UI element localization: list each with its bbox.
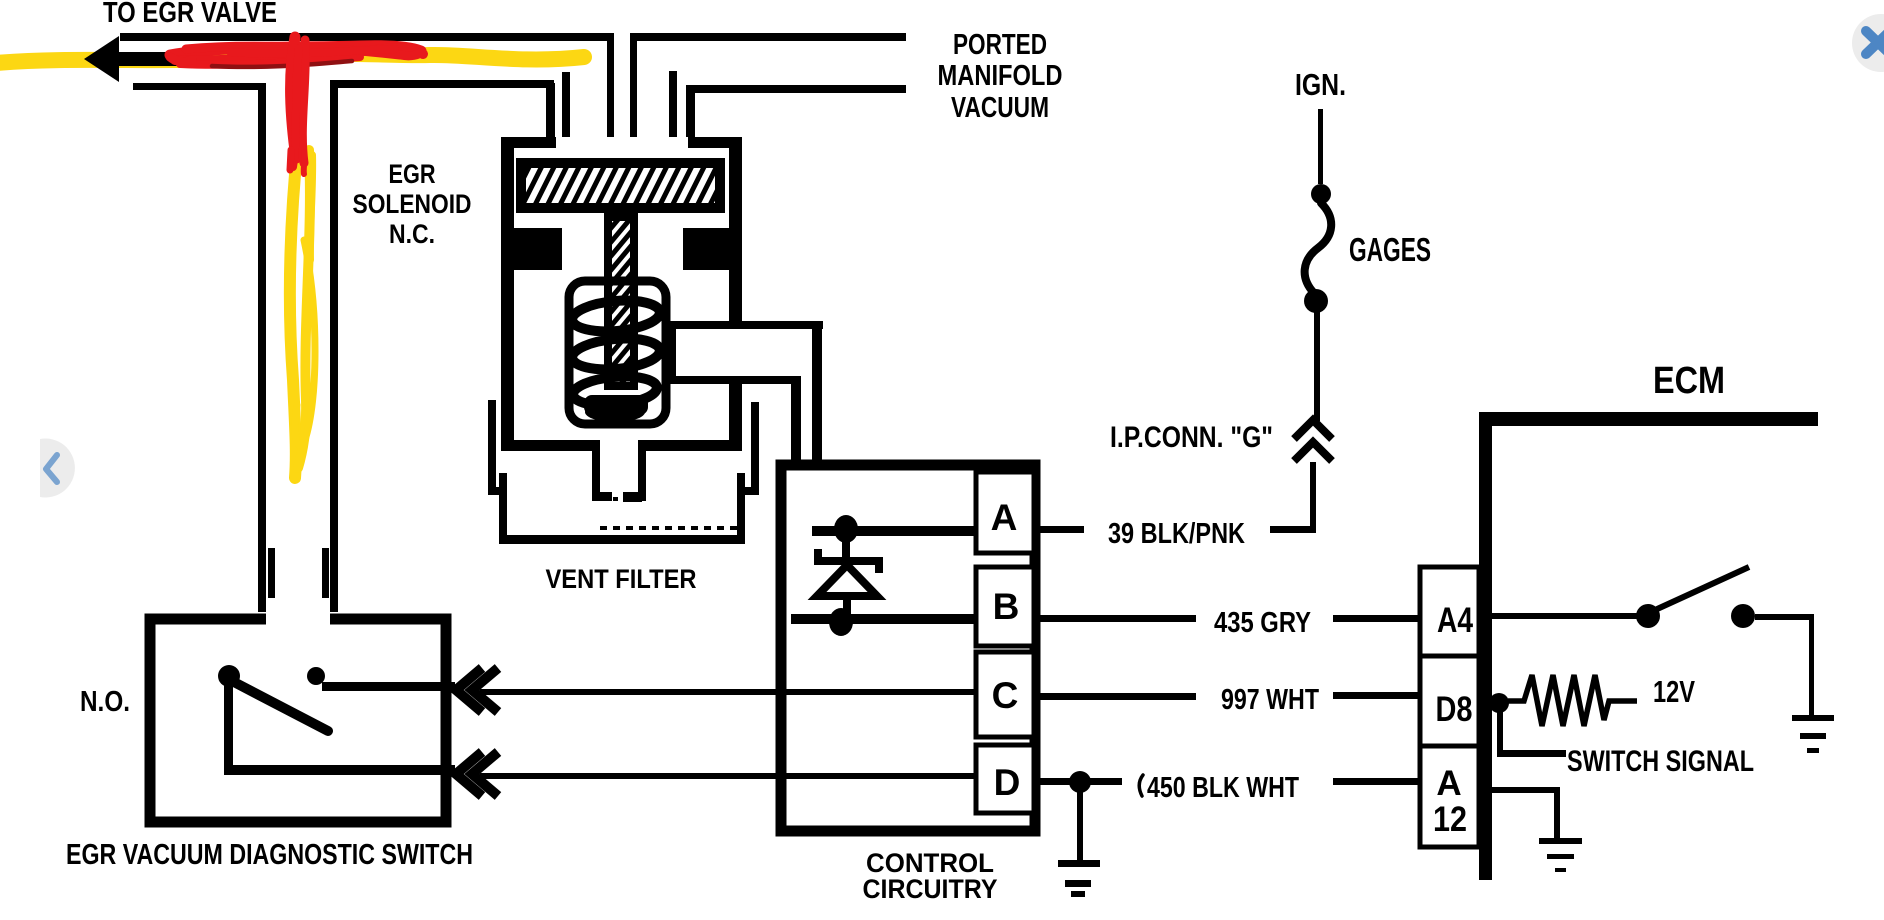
spring turn 1 xyxy=(571,297,661,335)
wire tap lower from solenoid xyxy=(666,376,801,384)
left port outer wall xyxy=(546,83,555,148)
spring turn 2 xyxy=(571,335,661,373)
terminal C cell xyxy=(976,652,1034,737)
hose lower wall left segment xyxy=(133,83,266,90)
svg-text:TO EGR VALVE: TO EGR VALVE xyxy=(103,0,277,29)
svg-text:450 BLK WHT: 450 BLK WHT xyxy=(1147,772,1299,804)
valve outlet notch right foot xyxy=(623,492,642,502)
hose upper wall left segment xyxy=(120,33,614,41)
yellow highlighter stroke along hose to EGR valve xyxy=(0,54,584,63)
wire 435 GRY right segment to ECM A4 xyxy=(1333,615,1420,622)
left port inner stub xyxy=(562,72,570,143)
pull-up resistor node dot at D8 xyxy=(1489,693,1509,713)
back button chevron xyxy=(46,455,57,482)
tube right wall down to switch xyxy=(330,80,338,612)
switch contact dot right xyxy=(307,667,325,685)
solenoid body top edge right xyxy=(688,137,742,148)
ground at internal switch xyxy=(1792,715,1834,721)
switch contact dot left xyxy=(218,665,240,687)
right port inner stub xyxy=(669,71,677,143)
solenoid body interior xyxy=(501,137,742,451)
tube end stub left at switch port xyxy=(268,548,275,598)
vent filter cup inner dashed line xyxy=(600,526,737,530)
wire from terminal A to 39 BLK/PNK xyxy=(1040,526,1084,533)
svg-text:MANIFOLD: MANIFOLD xyxy=(938,60,1063,92)
switch box top opening xyxy=(266,610,330,627)
diagnostic switch box xyxy=(150,619,446,822)
hose lower wall right segment xyxy=(686,85,906,93)
node dot on A wire xyxy=(834,515,858,543)
tube left wall down to switch xyxy=(258,83,266,612)
connector chevrons on C wire xyxy=(456,668,482,712)
right port outer wall xyxy=(686,85,695,148)
hatch lines on armature stem xyxy=(606,198,636,416)
ground node dot on 450 wire xyxy=(1069,771,1091,793)
yellow highlighter stroke down tube second pass xyxy=(298,150,310,468)
ground at A12 xyxy=(1539,838,1582,844)
red pen horizontal scribble on hose xyxy=(170,46,421,55)
wire 450 BLK WHT from switch to terminal D xyxy=(480,773,976,779)
wire tap upper vertical drop xyxy=(812,321,822,535)
coil bobbin frame xyxy=(569,281,666,424)
terminal D cell xyxy=(976,745,1034,813)
terminal A cell xyxy=(976,472,1034,553)
spring seat blob xyxy=(584,395,648,415)
zener diode connecting link bottom xyxy=(843,595,851,622)
internal switch contact dot right xyxy=(1731,604,1755,628)
ECM connector cell A12 xyxy=(1420,746,1479,847)
red pen drip tip xyxy=(290,150,291,170)
tube end stub right at switch port xyxy=(322,548,329,598)
wire below connector down xyxy=(1310,462,1316,533)
pull-up resistor zigzag xyxy=(1508,675,1637,726)
wire from A12 to ground xyxy=(1492,787,1560,793)
vent filter clip right xyxy=(751,402,759,494)
solenoid body bottom edge right xyxy=(645,440,742,451)
wire tap upper from solenoid xyxy=(666,321,823,329)
svg-text:EGR VACUUM DIAGNOSTIC SWITCH: EGR VACUUM DIAGNOSTIC SWITCH xyxy=(66,839,473,871)
close button X xyxy=(1866,31,1884,54)
ECM connector cell A4 xyxy=(1420,567,1479,656)
solenoid body right wall lower xyxy=(729,376,742,451)
solenoid body left wall xyxy=(501,137,514,451)
vent filter cup right wall xyxy=(737,473,745,544)
coil pole block right xyxy=(683,228,742,270)
svg-text:B: B xyxy=(993,586,1020,627)
switch wire lower horizontal xyxy=(224,765,455,775)
ground below node dot xyxy=(1077,782,1083,861)
stray pen mark before 450 xyxy=(1139,775,1143,796)
vent filter cup bottom xyxy=(499,535,745,544)
internal switch lever xyxy=(1655,567,1749,610)
solenoid body bottom edge left xyxy=(501,440,594,451)
wire 997 WHT left segment xyxy=(1040,693,1196,700)
wire from switch to ground xyxy=(1755,614,1814,620)
switch lever xyxy=(232,681,328,731)
channel wall between taps xyxy=(666,321,676,384)
hatch lines on armature plate xyxy=(480,155,760,215)
wire from fuse down to connector xyxy=(1314,311,1320,421)
valve outlet notch left wall xyxy=(592,440,600,501)
svg-text:EGR: EGR xyxy=(389,159,436,189)
svg-text:N.C.: N.C. xyxy=(389,219,435,249)
zener diode cathode bar xyxy=(814,557,883,565)
vent filter cup left wall xyxy=(499,473,507,544)
svg-text:CIRCUITRY: CIRCUITRY xyxy=(863,874,998,904)
yellow highlighter loop in tube xyxy=(295,240,315,445)
svg-text:SOLENOID: SOLENOID xyxy=(353,189,472,219)
wire 997 WHT right segment to ECM D8 xyxy=(1333,692,1420,699)
svg-text:I.P.CONN. "G": I.P.CONN. "G" xyxy=(1110,421,1273,454)
ECM connector cell D8 xyxy=(1420,656,1479,746)
svg-text:PORTED: PORTED xyxy=(953,29,1047,61)
valve outlet notch left foot xyxy=(596,492,612,501)
control circuitry box xyxy=(781,465,1035,831)
svg-text:D: D xyxy=(994,762,1021,803)
wire tap lower vertical drop xyxy=(791,376,801,622)
spring turn 3 xyxy=(572,373,658,408)
solenoid body right wall upper xyxy=(729,137,742,329)
zener diode connecting link top xyxy=(842,529,850,557)
wire 997 WHT from switch to terminal C xyxy=(480,689,976,695)
svg-text:D8: D8 xyxy=(1436,690,1473,729)
svg-text:VENT FILTER: VENT FILTER xyxy=(546,564,697,594)
svg-text:ECM: ECM xyxy=(1653,360,1725,402)
svg-text:N.O.: N.O. xyxy=(80,686,130,718)
svg-text:C: C xyxy=(992,675,1019,716)
wire inside box to terminal A xyxy=(812,526,976,536)
coil pole block left xyxy=(503,228,562,270)
hose upper wall right segment xyxy=(630,33,906,41)
wire from IGN down xyxy=(1318,109,1323,184)
red pen vertical scribble into tube xyxy=(291,37,296,158)
back button half disc xyxy=(40,439,75,498)
armature plate hatched xyxy=(521,163,720,208)
zener diode triangle xyxy=(817,565,877,596)
svg-text:12: 12 xyxy=(1433,800,1467,839)
center pipe left wall into solenoid xyxy=(607,33,614,158)
vent filter clip left xyxy=(488,400,496,494)
ECM boundary top edge xyxy=(1479,412,1818,426)
solenoid body top edge left xyxy=(501,137,556,148)
wire from A4 to internal switch xyxy=(1492,613,1638,619)
fuse bottom dot xyxy=(1304,289,1328,313)
svg-text:VACUUM: VACUUM xyxy=(951,92,1049,124)
armature stem hatched xyxy=(608,217,634,386)
wire 450 BLK WHT left segment xyxy=(1040,778,1122,785)
ECM boundary vertical line xyxy=(1479,412,1492,880)
svg-text:A: A xyxy=(1436,764,1461,803)
fuse top dot xyxy=(1311,184,1331,204)
red pen dark overlap stroke xyxy=(212,61,352,67)
svg-text:GAGES: GAGES xyxy=(1349,231,1431,268)
yellow highlighter stroke down tube to switch xyxy=(290,142,298,478)
connector chevrons on D wire xyxy=(456,752,482,796)
switch wire from left contact down xyxy=(224,676,233,775)
svg-text:A: A xyxy=(991,497,1018,538)
connector I.P. CONN chevrons pointing up xyxy=(1294,420,1332,439)
switch wire from right contact xyxy=(322,682,455,691)
wire 435 GRY left segment xyxy=(1040,615,1196,622)
wire inside box to terminal B xyxy=(791,614,976,624)
svg-text:12V: 12V xyxy=(1653,674,1695,709)
node dot on B wire xyxy=(829,608,853,636)
svg-text:SWITCH SIGNAL: SWITCH SIGNAL xyxy=(1567,745,1754,778)
wire corner to 39 BLK/PNK xyxy=(1270,526,1316,533)
svg-text:A4: A4 xyxy=(1437,601,1473,640)
valve outlet notch center dot xyxy=(613,497,618,501)
close button circle xyxy=(1852,14,1884,72)
svg-text:435 GRY: 435 GRY xyxy=(1214,607,1311,639)
svg-text:39 BLK/PNK: 39 BLK/PNK xyxy=(1108,518,1245,550)
center pipe right wall into solenoid xyxy=(630,33,637,158)
terminal B cell xyxy=(976,567,1034,646)
svg-text:997 WHT: 997 WHT xyxy=(1221,684,1319,716)
hose lower wall middle segment xyxy=(330,80,554,88)
fuse GAGES squiggle xyxy=(1305,203,1332,293)
switch signal pointer line xyxy=(1497,703,1503,757)
internal switch contact dot left xyxy=(1636,604,1660,628)
arrow to EGR valve xyxy=(84,36,200,82)
valve outlet notch right wall xyxy=(638,440,646,501)
wire 450 BLK WHT right segment to ECM A12 xyxy=(1333,778,1420,785)
svg-text:IGN.: IGN. xyxy=(1295,67,1346,102)
